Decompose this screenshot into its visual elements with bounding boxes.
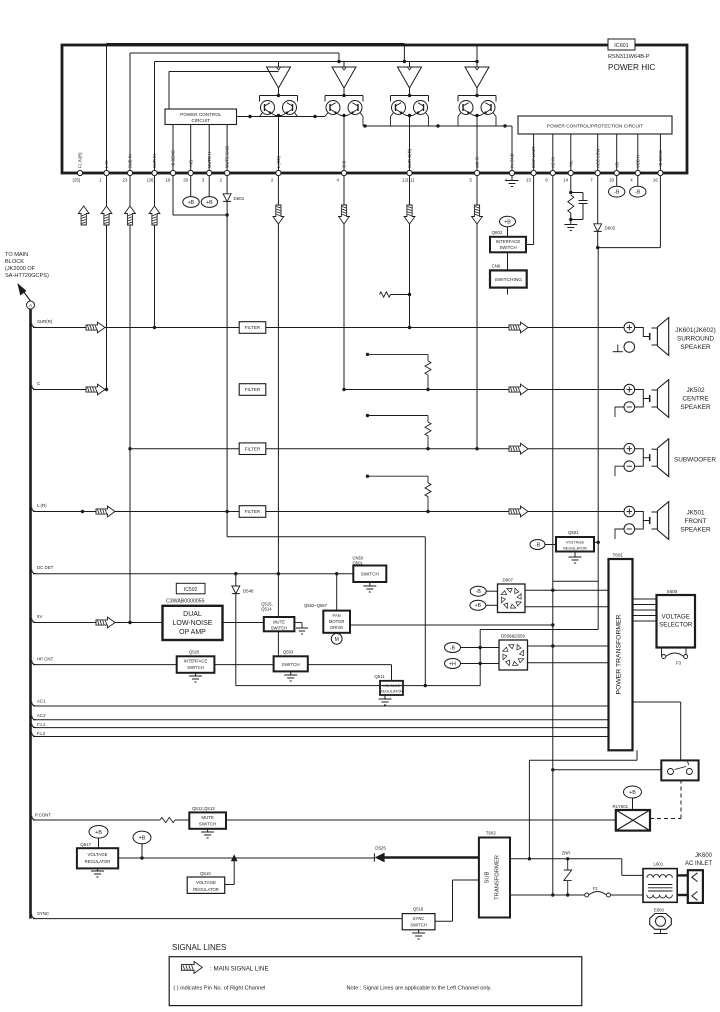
svg-text:REGULATOR: REGULATOR: [563, 545, 587, 550]
svg-text:SWITCH: SWITCH: [499, 245, 516, 250]
svg-text:C: C: [37, 381, 40, 386]
svg-text:Q520: Q520: [189, 649, 200, 654]
svg-text:SYNC: SYNC: [413, 916, 425, 921]
svg-text:SPEAKER: SPEAKER: [680, 527, 711, 534]
svg-text:DRIVE: DRIVE: [330, 625, 343, 630]
svg-text:+B: +B: [188, 200, 195, 206]
svg-text:F.LIN(R): F.LIN(R): [78, 152, 83, 168]
svg-text:Q552~Q557: Q552~Q557: [304, 603, 328, 608]
svg-text:+B SENS: +B SENS: [658, 150, 663, 168]
svg-text:C3WAB0000055: C3WAB0000055: [166, 599, 205, 605]
svg-text:Q510: Q510: [200, 871, 211, 876]
svg-text:SELECTOR: SELECTOR: [659, 622, 693, 629]
svg-text:Q602: Q602: [492, 230, 503, 235]
svg-text:JK502: JK502: [686, 387, 705, 394]
svg-text:VOLTAGE: VOLTAGE: [662, 614, 690, 621]
svg-text:DC DET: DC DET: [37, 565, 54, 570]
svg-text:-B: -B: [635, 190, 641, 196]
svg-text:E600: E600: [654, 907, 664, 912]
svg-text:16: 16: [653, 178, 658, 183]
svg-text:FAN: FAN: [333, 613, 341, 618]
svg-text:AC INLET: AC INLET: [685, 861, 712, 867]
svg-text:SA-HT720GCPS): SA-HT720GCPS): [5, 273, 49, 279]
svg-text:5V: 5V: [37, 614, 42, 619]
svg-text:13: 13: [526, 178, 531, 183]
svg-text:SWITCH: SWITCH: [199, 821, 216, 826]
svg-text:+B SENS: +B SENS: [171, 150, 176, 168]
svg-text:IC502: IC502: [184, 587, 198, 593]
svg-text:IN GND: IN GND: [510, 153, 515, 168]
svg-text:FILTER: FILTER: [245, 509, 261, 514]
svg-text:FILTER: FILTER: [245, 325, 261, 330]
svg-text:VD: VD: [614, 162, 619, 168]
svg-text:VOLTAGE: VOLTAGE: [566, 539, 585, 544]
svg-text:D/SP LIMIT: D/SP LIMIT: [531, 146, 536, 168]
svg-text:(25): (25): [73, 178, 81, 183]
svg-text:REGULATOR: REGULATOR: [193, 887, 219, 892]
svg-text:POWER CONTROL: POWER CONTROL: [180, 112, 222, 117]
svg-text:CIRCUIT: CIRCUIT: [191, 118, 210, 123]
svg-text:VCC H: VCC H: [635, 155, 640, 168]
svg-text:RLY501: RLY501: [613, 804, 629, 809]
svg-text:SWITCH: SWITCH: [187, 665, 204, 670]
svg-text:( ) indicates Pin No. of: ( ) indicates Pin No. of Right Channel: [173, 986, 265, 992]
svg-text:+B: +B: [504, 219, 511, 225]
svg-text:D602: D602: [605, 226, 616, 231]
svg-text:D548: D548: [243, 589, 254, 594]
svg-text:INTERFACE: INTERFACE: [496, 239, 521, 244]
svg-text:CENTRE: CENTRE: [682, 396, 708, 403]
svg-text:F3: F3: [676, 661, 682, 666]
svg-text:M: M: [335, 637, 339, 643]
svg-text:REGULATOR: REGULATOR: [380, 690, 404, 694]
svg-text:HP CNT: HP CNT: [37, 656, 54, 661]
svg-text:MUTE H: MUTE H: [207, 152, 212, 168]
svg-text:FILTER: FILTER: [245, 387, 261, 392]
svg-text:JK501: JK501: [686, 510, 705, 517]
svg-text:SIGNAL LINES: SIGNAL LINES: [172, 943, 226, 952]
svg-text:F.L1: F.L1: [37, 722, 46, 727]
svg-text:POWER TRANSFORMER: POWER TRANSFORMER: [616, 614, 623, 694]
svg-text:VOLTAGE: VOLTAGE: [87, 852, 107, 857]
svg-text:T601: T601: [613, 552, 624, 557]
svg-text:D525: D525: [375, 846, 386, 851]
svg-text:D601: D601: [234, 196, 245, 201]
svg-text:AC2: AC2: [37, 713, 46, 718]
svg-text:DUAL: DUAL: [183, 611, 202, 618]
svg-text:SUR(R): SUR(R): [37, 319, 53, 324]
svg-text:20: 20: [609, 178, 614, 183]
svg-text:+B: +B: [139, 835, 146, 841]
svg-text:JK601(JK602): JK601(JK602): [675, 327, 716, 334]
svg-text:-B: -B: [476, 589, 482, 595]
svg-text:D807: D807: [503, 577, 514, 582]
svg-text:SWITCH: SWITCH: [410, 922, 427, 927]
svg-text:SUB IN: SUB IN: [128, 154, 133, 168]
svg-text:Q512,Q513: Q512,Q513: [192, 806, 215, 811]
svg-text:Q516: Q516: [413, 907, 424, 912]
svg-text:SWITCH: SWITCH: [361, 572, 379, 577]
svg-text:Q503: Q503: [283, 649, 294, 654]
svg-text:OP AMP: OP AMP: [179, 629, 206, 636]
svg-text:CN6: CN6: [492, 264, 501, 269]
svg-text:IC601: IC601: [614, 43, 628, 49]
svg-text:P.CONT: P.CONT: [35, 813, 51, 818]
svg-text:: MAIN SIGNAL LINE: : MAIN SIGNAL LINE: [210, 966, 269, 973]
svg-text:SPEAKER: SPEAKER: [680, 404, 711, 411]
svg-text:18: 18: [166, 178, 171, 183]
svg-text:MUTE GND: MUTE GND: [225, 146, 230, 168]
svg-text:20: 20: [183, 178, 188, 183]
svg-text:12(11): 12(11): [402, 178, 415, 183]
svg-text:SYNC: SYNC: [37, 911, 49, 916]
svg-text:sub O: sub O: [475, 156, 480, 168]
svg-text:RSN311W64B-P: RSN311W64B-P: [608, 54, 650, 60]
svg-text:23: 23: [123, 178, 128, 183]
svg-text:(JK2000 OF: (JK2000 OF: [5, 266, 36, 272]
svg-text:SWITCHING: SWITCHING: [495, 277, 523, 283]
svg-text:-B: -B: [450, 645, 456, 651]
svg-text:LOW-NOISE: LOW-NOISE: [173, 620, 213, 627]
svg-text:SUB: SUB: [485, 871, 491, 883]
svg-text:BLOCK: BLOCK: [5, 259, 24, 265]
svg-text:+VD: +VD: [188, 160, 193, 168]
svg-text:SWITCH: SWITCH: [282, 662, 300, 667]
svg-text:MUTE: MUTE: [273, 619, 285, 624]
svg-text:-B: -B: [535, 542, 541, 548]
svg-text:TRANSFORMER: TRANSFORMER: [495, 855, 501, 900]
svg-text:C O: C O: [342, 160, 347, 168]
svg-text:14: 14: [563, 178, 568, 183]
svg-text:Q514: Q514: [261, 607, 272, 612]
svg-text:+B: +B: [475, 603, 482, 609]
svg-text:+B: +B: [629, 790, 636, 796]
svg-text:TO MAIN: TO MAIN: [5, 252, 28, 258]
svg-text:VOLTAGE: VOLTAGE: [196, 880, 216, 885]
svg-text:SWITCH: SWITCH: [271, 625, 288, 630]
svg-text:AC IN: AC IN: [550, 157, 555, 168]
svg-text:Q511: Q511: [374, 674, 385, 679]
svg-text:SUR O(R): SUR O(R): [407, 148, 412, 168]
svg-text:+B: +B: [206, 200, 213, 206]
svg-text:F1: F1: [593, 886, 599, 891]
svg-text:L601: L601: [654, 861, 664, 866]
svg-text:SPEAKER: SPEAKER: [680, 344, 711, 351]
svg-text:L (R): L (R): [37, 503, 47, 508]
svg-text:Note : Signal Lines are appli: Note : Signal Lines are applicable to th…: [347, 986, 493, 992]
svg-text:F.L2: F.L2: [37, 731, 46, 736]
svg-text:+B: +B: [95, 830, 102, 836]
svg-text:Q517: Q517: [80, 842, 91, 847]
svg-text:T602: T602: [486, 831, 497, 836]
svg-text:SURROUND: SURROUND: [677, 335, 714, 342]
svg-text:L IN: L IN: [104, 160, 109, 168]
svg-text:POWER HIC: POWER HIC: [608, 63, 655, 72]
svg-text:SUBWOOFER: SUBWOOFER: [674, 457, 716, 464]
svg-text:SUR IN: SUR IN: [152, 154, 157, 168]
svg-text:FRONT: FRONT: [684, 518, 706, 525]
svg-text:L (CS): L (CS): [276, 155, 281, 168]
svg-text:-B: -B: [614, 190, 620, 196]
svg-text:S600: S600: [667, 589, 678, 594]
svg-text:D558&D559: D558&D559: [501, 633, 525, 638]
svg-text:Q551: Q551: [568, 530, 579, 535]
svg-text:ACC LOW: ACC LOW: [595, 148, 600, 168]
svg-text:MOTOR: MOTOR: [329, 619, 345, 624]
svg-text:ZNR: ZNR: [562, 851, 571, 856]
svg-text:+VL: +VL: [568, 160, 573, 168]
svg-text:+H: +H: [449, 661, 456, 667]
svg-text:JK600: JK600: [695, 853, 713, 859]
svg-text:INTERFACE: INTERFACE: [184, 659, 208, 664]
svg-text:FILTER: FILTER: [245, 446, 261, 451]
svg-text:REGULATOR: REGULATOR: [85, 859, 111, 864]
svg-text:AC1: AC1: [37, 699, 46, 704]
svg-text:MUTE: MUTE: [201, 815, 214, 820]
svg-text:POWER CONTROL/PROTECTION CIRCU: POWER CONTROL/PROTECTION CIRCUIT: [547, 123, 644, 129]
